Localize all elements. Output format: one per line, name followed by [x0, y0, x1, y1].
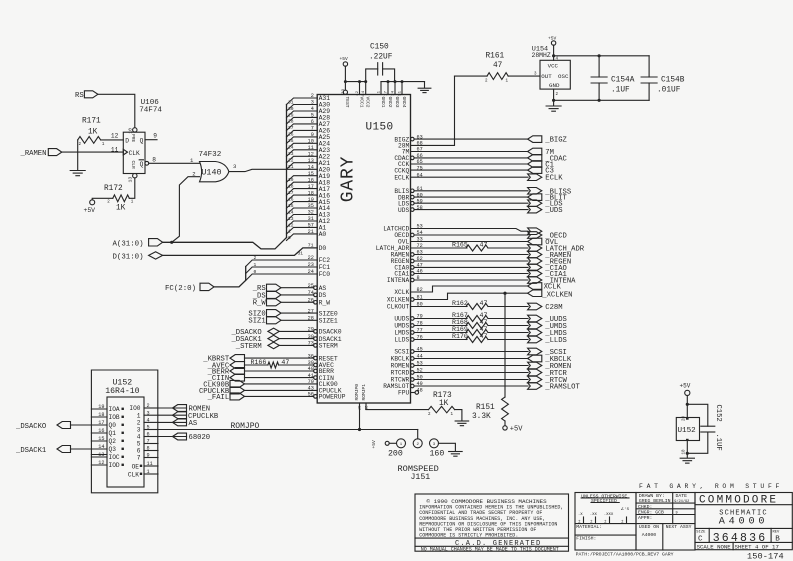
wire _DSACKO to pin 29: [279, 330, 313, 332]
+5V source at U154: [551, 41, 555, 45]
svg-text:14: 14: [98, 444, 104, 450]
svg-text:15: 15: [98, 436, 104, 442]
wire RAMEN: [414, 254, 528, 256]
svg-text:11: 11: [147, 461, 153, 467]
wire _RAMEN to U106 CLK pin 11: [62, 151, 124, 153]
svg-text:XCLK: XCLK: [394, 289, 409, 296]
svg-text:17: 17: [385, 90, 389, 95]
wire SCSI: [414, 351, 528, 353]
connector J151 ROMSPEED pin 1: [397, 439, 406, 448]
svg-text:12: 12: [111, 132, 119, 139]
svg-text:47: 47: [480, 312, 488, 319]
ground below R171: [70, 170, 85, 172]
resistor R169: [466, 330, 488, 336]
svg-text:GND4: GND4: [401, 97, 407, 108]
capacitor C152 .1UF: [687, 404, 708, 426]
svg-text:+5V: +5V: [340, 56, 349, 62]
commodore title box: [695, 493, 792, 550]
svg-text:+5V: +5V: [548, 36, 557, 42]
svg-text:1: 1: [137, 412, 141, 419]
svg-text:XCLK: XCLK: [544, 284, 562, 292]
wire R165 to port: [488, 247, 528, 249]
svg-text:47: 47: [493, 62, 503, 70]
wire +5V rail VCC: [345, 66, 365, 81]
wire R171 to U106 D pin 12: [101, 139, 124, 141]
U152 OE pin 11: [144, 465, 158, 467]
wire RTCRD: [414, 372, 528, 374]
svg-text:A0: A0: [319, 231, 327, 238]
wire CLK90B to pin 70: [245, 383, 318, 385]
svg-text:FC2: FC2: [319, 257, 331, 264]
svg-text:0: 0: [288, 235, 291, 241]
svg-text:R166: R166: [251, 359, 267, 366]
svg-text:C152: C152: [714, 405, 722, 422]
U152 pin 8 IO6: [144, 450, 158, 452]
svg-text:UDS: UDS: [398, 207, 409, 214]
U152 pin 4 IO2: [144, 421, 158, 423]
svg-text:PRE: PRE: [130, 134, 136, 143]
svg-text:16R4-10: 16R4-10: [105, 387, 139, 396]
svg-text:AS: AS: [189, 420, 198, 428]
svg-text:UMDS: UMDS: [394, 323, 409, 330]
svg-text:6: 6: [147, 432, 150, 438]
+5V source at GARY VCC: [343, 62, 347, 66]
wire LMDS to R169: [414, 332, 467, 334]
wire _DS to pin 74: [281, 294, 314, 296]
svg-text:47: 47: [281, 359, 289, 366]
input port _XCLKEN: [528, 290, 542, 297]
svg-text:7: 7: [137, 455, 141, 462]
svg-text:5: 5: [137, 441, 141, 448]
wire +5V to U154 VCC pin 4: [553, 45, 555, 60]
svg-text:D0: D0: [319, 245, 327, 252]
svg-text:8: 8: [152, 157, 156, 164]
U152 pin 14 Q3: [91, 448, 107, 450]
U152 pin 16 Q1: [91, 432, 107, 434]
wire INTENA: [414, 279, 528, 281]
output port _INTENA: [528, 277, 542, 284]
svg-text:DS: DS: [319, 292, 327, 299]
svg-text:R151: R151: [476, 404, 495, 412]
wire GARY ROMJP0 pin to ROMJPO net: [359, 403, 361, 430]
wire CCKQ: [411, 169, 529, 171]
output port ROMEN: [173, 405, 187, 412]
svg-text:APPR:: APPR:: [638, 515, 652, 521]
wire R168 to port: [488, 325, 528, 327]
drawn-by box: [636, 493, 695, 551]
svg-text:1: 1: [147, 469, 150, 475]
svg-text:9: 9: [153, 133, 157, 140]
output port _BLIT: [528, 194, 542, 201]
svg-text:68020: 68020: [189, 434, 211, 442]
output port C3: [528, 167, 542, 174]
wire _DSACK1 to pin 30: [279, 338, 313, 340]
output port _RTCR: [528, 369, 542, 376]
output port _LLDS: [528, 336, 542, 343]
wire XCLKEN stepped: [414, 293, 528, 299]
svg-text:GND1: GND1: [380, 97, 386, 108]
svg-text:5: 5: [147, 425, 150, 431]
svg-text:A4000: A4000: [719, 517, 769, 528]
A bus vertical: [286, 105, 288, 238]
svg-text:ROMEN: ROMEN: [391, 363, 410, 370]
junction node ROMJPO: [358, 428, 361, 431]
wire R170 to port: [488, 339, 528, 341]
U106 CLR bubble pin 13: [133, 174, 137, 178]
output port CPUCLKB: [173, 412, 187, 419]
svg-text:_LLDS: _LLDS: [544, 337, 567, 345]
svg-text:Q: Q: [140, 161, 144, 168]
wire R_W to pin 26: [281, 301, 314, 303]
+5V source at J151: [385, 441, 389, 445]
svg-text:USED ON: USED ON: [639, 524, 659, 530]
svg-text:C154B: C154B: [661, 76, 685, 84]
output port _UDS: [528, 206, 542, 213]
svg-text:ROMJP0: ROMJP0: [354, 384, 360, 401]
svg-text:SHEET 4 OF 17: SHEET 4 OF 17: [735, 543, 779, 550]
wire SIZ0 to pin 27: [281, 312, 317, 314]
svg-text:84: 84: [362, 90, 366, 95]
wire UMDS to R168: [414, 325, 467, 327]
output port _BIGZ: [528, 136, 542, 143]
wire R169 to port: [488, 332, 528, 334]
wire GARY ROMJP1 pin to R173: [366, 403, 429, 410]
svg-text:1: 1: [254, 262, 257, 268]
svg-text:34: 34: [392, 90, 396, 95]
+5V source at R151: [503, 426, 507, 430]
svg-text:R168: R168: [452, 319, 468, 326]
IC U152 power block: [676, 418, 699, 441]
wire CLKOUT to R162: [411, 306, 468, 308]
capacitor C154B .01UF: [648, 56, 650, 77]
svg-text:TEST: TEST: [344, 97, 350, 108]
svg-text:9: 9: [147, 453, 150, 459]
wire _DSACK0 to U152: [71, 424, 92, 426]
svg-text:31: 31: [298, 250, 304, 256]
wire XCLKEN junction to R151: [504, 293, 506, 397]
svg-text:+5V: +5V: [371, 440, 377, 449]
svg-text:UUDS: UUDS: [394, 316, 409, 323]
svg-text:DATE: DATE: [676, 493, 688, 499]
svg-text:47: 47: [480, 319, 488, 326]
svg-text:_DSACKO: _DSACKO: [15, 423, 46, 431]
svg-text:.22UF: .22UF: [369, 54, 393, 62]
svg-text:71: 71: [308, 242, 314, 248]
wire OECD: [414, 234, 528, 236]
svg-text:3.3K: 3.3K: [472, 413, 491, 421]
svg-text:STERM: STERM: [319, 343, 338, 350]
output port _CDAC: [528, 155, 542, 162]
svg-text:POWERUP: POWERUP: [319, 394, 346, 401]
output port _KBCLK: [528, 355, 542, 362]
svg-text:FAT GARY, ROM STUFF: FAT GARY, ROM STUFF: [639, 483, 783, 490]
U106 PRE bubble pin 10: [133, 128, 137, 132]
output port LATCHCD: [528, 228, 542, 235]
svg-text:GND: GND: [549, 82, 560, 89]
wire +5V to U152 VCC pin 20: [686, 396, 688, 418]
svg-text:3: 3: [233, 163, 236, 170]
output port LATCH_ADR: [528, 245, 542, 252]
svg-text:1K: 1K: [88, 129, 98, 137]
svg-text:R169: R169: [452, 326, 468, 333]
svg-text:VCC2: VCC2: [365, 97, 371, 108]
svg-text:Q3: Q3: [109, 446, 117, 453]
svg-text:10: 10: [683, 449, 687, 455]
svg-text:28MHZ: 28MHZ: [532, 52, 551, 59]
resistor R168: [466, 323, 488, 329]
svg-text:R171: R171: [82, 117, 101, 125]
wire _KBRST to pin 36: [245, 357, 314, 359]
wire U152 IO2 to port AS: [158, 421, 187, 423]
svg-text:C150: C150: [370, 44, 389, 52]
output port _RAMSLOT: [528, 383, 542, 390]
svg-text:A(31:0): A(31:0): [113, 240, 144, 248]
svg-text:8: 8: [147, 446, 150, 452]
wire U140 output to GARY A20 pin 14: [229, 169, 317, 171]
svg-text:R173: R173: [433, 392, 452, 400]
U152 pin 18 IOB: [91, 416, 107, 418]
svg-text:OE: OE: [132, 463, 140, 470]
svg-text:FC0: FC0: [319, 271, 331, 278]
svg-text:MATERIAL:: MATERIAL:: [576, 524, 602, 530]
wire U140 input 2 from A bus: [172, 177, 200, 243]
wire REGEN: [414, 260, 528, 262]
svg-text:R172: R172: [104, 185, 123, 193]
U154 GND pin 2: [553, 89, 555, 100]
svg-text:42: 42: [356, 90, 360, 95]
svg-text:J151: J151: [411, 473, 431, 482]
IC U150 GARY body: [317, 95, 410, 404]
FC bus wire: [214, 267, 246, 287]
svg-text:LMDS: LMDS: [394, 330, 409, 337]
GARY GND1 pin 1: [380, 82, 382, 95]
wire _RS to pin 25: [281, 287, 314, 289]
svg-text:47: 47: [480, 333, 488, 340]
svg-text:4: 4: [137, 434, 141, 441]
svg-text:U150: U150: [366, 121, 394, 133]
svg-text:_DSACK1: _DSACK1: [15, 447, 46, 455]
svg-text:3: 3: [137, 427, 141, 434]
svg-text:VCC1: VCC1: [358, 97, 364, 108]
U152 pin 17 Q0: [91, 424, 107, 426]
svg-text:RS: RS: [75, 92, 84, 100]
svg-text:SIZ1: SIZ1: [248, 318, 265, 326]
wire R167 to port: [488, 318, 528, 320]
svg-text:D(31:0): D(31:0): [113, 254, 144, 262]
wire U106 Qbar to U140 input 1: [149, 162, 200, 164]
wire R171 left to ground: [77, 140, 79, 170]
wire _DSACK1 to U152: [71, 448, 92, 450]
svg-text:150-174: 150-174: [747, 552, 784, 561]
output port _UMDS: [528, 322, 542, 329]
svg-text:RTCRD: RTCRD: [391, 370, 410, 377]
svg-text:_UDS: _UDS: [544, 207, 562, 215]
svg-text:12: 12: [98, 460, 104, 466]
svg-text:C154A: C154A: [611, 76, 635, 84]
wire +5V to J151 pin 1: [389, 442, 396, 444]
output port C1: [528, 161, 542, 168]
svg-text:7: 7: [147, 439, 150, 445]
svg-text:ECLK: ECLK: [394, 174, 409, 181]
svg-text:Q: Q: [140, 137, 144, 144]
svg-text:ROMJP1: ROMJP1: [361, 384, 367, 401]
svg-text:.X: .X: [578, 513, 583, 517]
svg-text:Q0: Q0: [109, 422, 117, 429]
connector J151 pin 3: [430, 439, 439, 448]
wire U152 GND pin 10 to ground: [686, 441, 688, 458]
wire UUDS to R167: [414, 318, 467, 320]
wire LATCH_ADR to R165: [411, 247, 468, 249]
wire U152 IO4 to port 68020: [158, 436, 187, 438]
svg-text:_RAMEN: _RAMEN: [20, 150, 47, 158]
svg-text:47: 47: [480, 300, 488, 307]
output port _LDS: [528, 200, 542, 207]
wire RTCWR: [414, 379, 528, 381]
wire RS to U106 PRE: [98, 94, 135, 127]
svg-text:DSACK0: DSACK0: [319, 329, 342, 336]
svg-text:51: 51: [399, 90, 403, 95]
U152 pin 7 IO5: [144, 443, 158, 445]
svg-text:SCSI: SCSI: [394, 349, 409, 356]
output port AS: [173, 419, 187, 426]
output port C28M: [528, 303, 542, 310]
svg-text:XCLKEN: XCLKEN: [387, 297, 410, 304]
svg-text:SIZE1: SIZE1: [319, 318, 338, 325]
wire CCK: [411, 163, 529, 165]
input port XCLK: [528, 283, 542, 290]
svg-text:KBCLK: KBCLK: [391, 356, 410, 363]
svg-text:_RAMSLOT: _RAMSLOT: [544, 384, 580, 392]
svg-text:OSC: OSC: [558, 73, 569, 80]
wire 28M to R161: [411, 76, 455, 145]
junction node XCLKEN to R151: [503, 292, 506, 295]
wire SIZ1 to pin 28: [281, 319, 317, 321]
wire CIA0: [414, 266, 528, 268]
U152 pin 19 IOA: [91, 408, 107, 410]
wire _STERM to pin 73: [279, 344, 313, 346]
wire R151 to +5V: [504, 421, 506, 426]
wire XCLK stepped: [411, 286, 529, 292]
output port _REGEN: [528, 258, 542, 265]
svg-text:74F74: 74F74: [139, 106, 162, 114]
svg-text:Q1: Q1: [109, 430, 117, 437]
svg-text:_STERM: _STERM: [235, 343, 262, 351]
svg-text:+5V: +5V: [680, 383, 691, 390]
svg-text:R_W: R_W: [253, 300, 267, 308]
U152 pin 2 IO0: [144, 407, 158, 409]
U152 pin 3 IO1: [144, 414, 158, 416]
U152 pin 9 IO7: [144, 457, 158, 459]
svg-text:SIZE: SIZE: [696, 531, 706, 535]
svg-text:R165: R165: [452, 242, 468, 249]
U106 74F74 flip-flop: [123, 132, 145, 173]
svg-text:+5V: +5V: [510, 426, 523, 434]
wire ROMEN: [414, 365, 528, 367]
wire LDS: [414, 202, 528, 204]
wire R161 to U154 OUT: [508, 75, 540, 77]
ground at J151: [449, 451, 463, 453]
svg-text:16: 16: [98, 428, 104, 434]
output port _SCSI: [528, 348, 542, 355]
output port OVL: [528, 238, 542, 245]
output port _CIA0: [528, 264, 542, 271]
svg-text:FC1: FC1: [319, 264, 331, 271]
wire ECLK: [411, 176, 529, 178]
ground below U154: [553, 100, 555, 105]
svg-text:FC(2:0): FC(2:0): [165, 285, 196, 293]
GND rail at GARY top: [381, 81, 425, 83]
svg-text:PATH:/PROJECT/AA1000/PCB_REV7: PATH:/PROJECT/AA1000/PCB_REV7 GARY: [576, 552, 674, 558]
svg-text:.01UF: .01UF: [657, 87, 681, 95]
U106 Q pin 9 stub: [145, 139, 157, 141]
wire J151 pin 3 to ground: [439, 443, 456, 451]
svg-text:13: 13: [98, 452, 104, 458]
svg-text:6: 6: [137, 448, 141, 455]
output port _ROMEN: [528, 362, 542, 369]
svg-text:IOC: IOC: [109, 454, 120, 461]
wire _CIIN to pin 41: [245, 377, 314, 379]
wire LLDS to R170: [414, 339, 467, 341]
svg-text:CLKOUT: CLKOUT: [387, 304, 410, 311]
wire U152 IO3 ROMJPO net start: [157, 429, 159, 431]
svg-text:160: 160: [430, 450, 445, 459]
svg-text:VCC: VCC: [548, 63, 559, 70]
svg-text:R170: R170: [452, 333, 468, 340]
svg-text:_XCLKEN: _XCLKEN: [541, 292, 572, 300]
capacitor C154A .1UF: [598, 56, 600, 77]
svg-text:3: 3: [147, 410, 150, 416]
wire 7M: [411, 151, 529, 153]
output port _OECD: [528, 232, 542, 239]
svg-text:.1UF: .1UF: [714, 434, 722, 451]
svg-text:+5V: +5V: [84, 207, 96, 214]
svg-text:2: 2: [254, 255, 257, 261]
A bus wire: [163, 238, 287, 249]
output port ECLK: [528, 174, 542, 181]
svg-text:17: 17: [98, 420, 104, 426]
GARY FPU pin 48 no-connect stub: [411, 392, 416, 394]
resistor R170: [466, 337, 488, 343]
wire R172 to U106 CLR pin 13: [129, 178, 135, 198]
svg-text:IOD: IOD: [109, 462, 120, 469]
wire CIA1: [414, 273, 528, 275]
svg-text:GARY: GARY: [339, 156, 359, 202]
svg-text:1K: 1K: [116, 205, 126, 213]
svg-text:10: 10: [128, 128, 134, 134]
svg-text:AS: AS: [319, 285, 327, 292]
output port _LMDS: [528, 329, 542, 336]
GARY VCC1 pin 42: [359, 82, 361, 95]
wire BLISS: [414, 190, 528, 192]
U152 CLK pin 1: [144, 473, 158, 475]
U106 Qbar bubble pin 8: [145, 161, 149, 165]
ground below R173: [455, 420, 469, 422]
svg-text:_BIGZ: _BIGZ: [544, 137, 567, 145]
svg-text:4: 4: [147, 418, 150, 424]
svg-text:R167: R167: [452, 312, 468, 319]
svg-text:SCALE NONE: SCALE NONE: [697, 543, 732, 550]
D bus wire to D0 pin 71: [163, 248, 318, 256]
wire _FAIL to pin 56: [245, 395, 314, 397]
connector J151 pin 2: [413, 439, 422, 448]
svg-text:U152: U152: [678, 427, 697, 435]
svg-text:Q2: Q2: [109, 438, 117, 445]
svg-text:.XXX: .XXX: [604, 513, 614, 517]
GARY GND4 pin 51: [401, 82, 403, 95]
svg-text:74F32: 74F32: [199, 151, 222, 159]
wire U152 IO1 to port CPUCLKB: [158, 414, 187, 416]
ground at GARY top: [424, 82, 426, 88]
